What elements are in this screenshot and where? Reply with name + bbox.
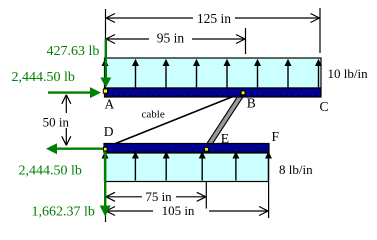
- svg-text:75 in: 75 in: [145, 189, 172, 204]
- reaction arrow 2,444.50 lb (left at D): [46, 143, 104, 154]
- node D (pin): [104, 147, 108, 151]
- svg-text:125 in: 125 in: [197, 11, 231, 26]
- reaction arrow 1,662.37 lb (down at D): [100, 150, 111, 217]
- svg-text:D: D: [104, 124, 114, 139]
- dimension 105 in line: [106, 207, 268, 216]
- bottom beam load arrows: [102, 151, 273, 180]
- node A (pin): [103, 89, 107, 93]
- extension line at C (top): [319, 8, 321, 53]
- extension line at A (top): [105, 9, 107, 58]
- top beam bottom tick marks: [106, 95, 321, 97]
- svg-text:427.63 lb: 427.63 lb: [47, 44, 100, 59]
- reaction arrow 427.63 lb (down at A): [100, 39, 111, 88]
- bottom beam distributed load region (cyan): [105, 153, 269, 182]
- bottom beam DEF (navy): [104, 144, 269, 153]
- svg-text:1,662.37 lb: 1,662.37 lb: [32, 204, 95, 219]
- extension line at F (bottom): [268, 181, 270, 218]
- svg-text:95 in: 95 in: [157, 31, 185, 46]
- svg-text:C: C: [320, 99, 329, 114]
- cable D to B: [106, 93, 244, 148]
- dimension 125 in line: [106, 14, 320, 23]
- svg-text:2,444.50 lb: 2,444.50 lb: [12, 70, 75, 85]
- svg-text:8 lb/in: 8 lb/in: [279, 162, 313, 177]
- bottom beam bottom tick marks: [105, 151, 268, 153]
- node B (pin): [241, 91, 245, 95]
- top beam ABC (navy): [105, 88, 322, 97]
- svg-text:cable: cable: [142, 109, 165, 121]
- svg-text:2,444.50 lb: 2,444.50 lb: [19, 163, 82, 178]
- svg-text:F: F: [272, 129, 280, 144]
- svg-text:105 in: 105 in: [162, 203, 195, 218]
- top beam distributed load region (cyan): [105, 58, 322, 88]
- dimension 95 in line: [106, 35, 245, 44]
- top beam load arrows: [102, 59, 323, 88]
- reaction arrow 2,444.50 lb (right into A): [48, 87, 101, 98]
- extension line at E (bottom): [205, 181, 207, 209]
- svg-text:10 lb/in: 10 lb/in: [328, 66, 369, 81]
- extension line at B (top): [245, 28, 247, 54]
- svg-text:50 in: 50 in: [43, 115, 70, 130]
- extension line at D (bottom): [105, 153, 107, 222]
- node E (pin): [205, 147, 209, 151]
- dimension 75 in line: [106, 192, 206, 201]
- dimension 50 in line: [62, 95, 71, 146]
- svg-text:A: A: [105, 97, 115, 112]
- svg-text:B: B: [247, 96, 256, 111]
- svg-text:E: E: [221, 131, 229, 146]
- strut E to B: [207, 93, 244, 149]
